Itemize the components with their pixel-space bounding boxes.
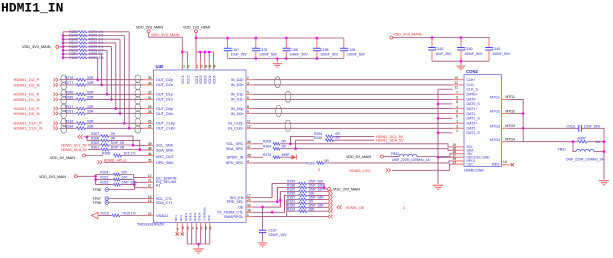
pin stub CON2 [453,79,465,81]
wire route v3 [280,192,287,208]
junction pull-up bus [62,42,65,45]
pin stub GND3 [195,222,197,229]
wire R325 to label [334,139,375,141]
svg-text:11: 11 [455,85,459,89]
wire VDD_3V3_MAIN to bus [59,46,63,48]
svg-text:22: 22 [148,212,152,216]
svg-text:26: 26 [148,120,152,124]
svg-text:R279: R279 [263,153,271,157]
resistor R289 DNP_62K [287,206,299,208]
wire route v5 [286,199,288,216]
junction top rail [285,37,288,40]
pin stub VDD1 [195,61,197,70]
svg-text:R301: R301 [91,145,99,149]
wire route v2 [277,188,287,202]
capacitor C413 10nF_2KV [579,125,582,132]
choke symbol pair 3 (outer) [61,104,67,112]
resistor R321 0R [287,202,299,204]
junction gnd tap 2 [460,60,463,63]
pin stub 38 [147,149,154,151]
resistor R314 62K [287,210,299,212]
wire bank row out [307,210,328,212]
off-page connector HDMI1_D1_P [54,93,58,97]
wire VDD5 drop [213,52,215,61]
off-page connector bank [328,201,333,205]
wire R216 to pin 22 [120,215,147,217]
svg-text:HPD_SRC: HPD_SRC [226,161,244,165]
svg-text:0R: 0R [282,140,287,144]
pin stub MTG4 [502,141,509,143]
svg-text:SDA_SNK: SDA_SNK [156,148,174,152]
off-page connector bank [328,194,333,198]
capacitor C158 100nF_50V [316,38,318,48]
wire FB32 to CON2 +5V [417,154,452,157]
junction rail [431,36,434,39]
svg-text:2: 2 [247,76,249,80]
svg-text:GND1: GND1 [184,212,188,221]
off-page connector HDMI1_D2_N [54,83,58,87]
wire SCL net to CON2 [280,144,452,147]
junction pull-up on line 1 [96,78,99,81]
svg-text:MTG4: MTG4 [506,138,516,142]
junction shield bus [437,117,440,120]
wire pull-up drop to line 7 [123,36,125,124]
junction pull-up bus [62,49,65,52]
svg-text:DAT1-: DAT1- [467,112,478,116]
wire R279 out [280,156,292,158]
svg-text:7: 7 [456,91,458,95]
svg-text:MTG1: MTG1 [506,95,516,99]
svg-text:35: 35 [148,76,152,80]
svg-text:SCL_SNK: SCL_SNK [156,144,174,148]
svg-text:10: 10 [454,76,458,80]
svg-text:46: 46 [247,140,251,144]
svg-text:VDD_3V3_MAIN: VDD_3V3_MAIN [39,175,66,179]
choke symbol pair 4 (right) [285,120,291,131]
pin stub GND5 [205,222,207,229]
junction route d [271,211,274,214]
wire pull-up drop to line 6 [119,39,121,113]
wire R286 to U40 [85,93,143,95]
pin stub 22 [147,215,154,217]
svg-text:MTG4: MTG4 [490,138,500,142]
wire 3V3 rail [393,37,490,39]
junction A1 tap [133,183,136,186]
svg-text:VDD_3V3_MAIN: VDD_3V3_MAIN [151,33,180,37]
svg-text:R325: R325 [314,136,322,140]
wire GND2 down [191,229,193,244]
wire R318 to U40 [85,122,143,124]
wire cap bank 2 bottom rail [432,60,489,62]
wire MTG bus [508,99,523,141]
junction MTG4 branch [572,140,575,143]
svg-text:100nF_50V: 100nF_50V [347,53,366,57]
pin stub RES [502,164,511,166]
junction SCL_SNK [132,144,135,147]
pin stub GND4 [200,222,202,229]
resistor R290 DNP_62K [287,183,299,185]
pin stub 33 [147,161,154,163]
off-page connector bank [328,190,333,194]
svg-text:NC1: NC1 [174,215,178,221]
pin stub 20 [246,201,253,203]
svg-text:2: 2 [456,129,458,133]
svg-text:HDMI1_SCL_5V: HDMI1_SCL_5V [61,143,88,147]
svg-text:C162: C162 [435,47,443,51]
wire C167 to gnd [262,232,264,241]
pin stub 16 [147,198,154,200]
wire TMDS line 3 to CON2 [253,93,453,95]
junction 62K bus b [94,178,97,181]
svg-text:100nF_50V: 100nF_50V [320,53,339,57]
wire chevron bus [86,136,88,141]
svg-text:GND4: GND4 [198,212,202,221]
wire cap bank bottom rail [228,58,344,60]
svg-text:DAT0-: DAT0- [467,98,478,102]
pin stub 42 [246,206,253,208]
resistor R188 DNP_62K [287,187,299,189]
svg-text:0R: 0R [325,159,330,163]
wire FB31 branch [573,142,576,152]
svg-text:28: 28 [148,110,152,114]
junction pull-up bus [62,34,65,37]
junction 3V3 tie [323,186,326,189]
off-page connector SCL/SDA 5V [78,135,83,139]
off-page connector CEC [386,168,391,172]
junction 62K bus a [94,175,97,178]
wire route v1 [272,184,287,198]
svg-text:14: 14 [195,64,199,68]
junction bottom rail [285,57,288,60]
ground (shield) [433,185,443,191]
junction route b [276,201,279,204]
pin stub VCC1 [181,61,183,70]
wire R300 row [88,144,101,146]
wire R250 row [63,31,78,33]
wire HPD to CON2 HPLG [324,161,452,163]
wire GND3 down [195,229,197,244]
svg-text:R318: R318 [65,120,74,124]
wire MTG3 to C413 [523,127,579,129]
svg-text:9: 9 [247,110,249,114]
wire VDD_1V2 rail [196,33,344,38]
pin stub MTG1 [502,98,509,100]
pin stub GND1 [186,222,188,229]
svg-text:33: 33 [148,159,152,163]
pin stub IN line 3 [246,93,253,95]
svg-text:C167: C167 [268,228,276,232]
svg-text:GND3: GND3 [193,212,197,221]
wire R307 row [87,135,101,137]
pin stub OUT line 7 [144,122,154,124]
wire TP96 [109,185,135,190]
svg-text:HDMI1_HPLG: HDMI1_HPLG [104,158,127,162]
wire SDA net to CON2 [280,149,452,151]
svg-text:MTG1: MTG1 [490,96,500,100]
choke symbol pair 4 (outer) [61,118,67,126]
pin stub IN line 2 [246,84,253,86]
svg-text:C156: C156 [290,48,298,52]
wire pin 20 route [253,188,277,202]
off-page connector HDMI1_D0_P [54,107,58,111]
wire ground stub [276,59,278,63]
wire HDMI1_CLK_N to resistor [60,127,77,129]
wire pin 42 route [253,192,280,208]
wire R246 row [63,38,78,40]
svg-text:32: 32 [148,91,152,95]
svg-text:100nF_50V: 100nF_50V [492,52,511,56]
svg-text:DNP_220R_100MHz_2A: DNP_220R_100MHz_2A [566,158,604,162]
wire shield pin [438,103,453,105]
pin stub IN line 7 [246,122,253,124]
wire R285 to U40 [85,98,143,100]
off-page connector bank [328,198,333,202]
junction VDD bus [199,51,202,54]
svg-text:MTG2: MTG2 [490,110,500,114]
pin stub IN line 4 [246,98,253,100]
pin stub CON2 [453,84,465,86]
svg-text:DAT1_S: DAT1_S [467,117,481,121]
wire VDD bus [196,38,214,52]
svg-text:62K: 62K [122,176,129,180]
wire GND5 down [205,229,207,244]
resistor R324 62K [96,174,114,176]
svg-text:0R: 0R [282,145,287,149]
svg-text:DAT1+: DAT1+ [467,107,478,111]
choke symbol pair 2 (outer) [61,89,67,97]
pin stub CON2 [453,93,465,95]
wire VDD2 drop [199,52,201,61]
wire R248 row [63,35,78,37]
junction bottom rail [255,57,258,60]
wire SDA_SNK merge [109,141,140,150]
pin stub SCL_SRC [246,143,253,145]
wire HDMI1_D2_N to resistor [60,84,77,86]
svg-text:OUT_D2n: OUT_D2n [156,83,173,87]
wire gnd bus [187,243,210,245]
pin stub GND2 [191,222,193,229]
svg-text:23: 23 [199,64,203,68]
wire TMDS line 4 to CON2 [253,98,453,100]
wire SCL_SNK merge [109,136,133,145]
wire gnd stub [198,244,200,248]
svg-text:RES: RES [492,163,500,167]
pin stub OUT line 3 [144,93,154,95]
junction pull-up on line 3 [106,93,109,96]
off-page connector bank [328,209,333,213]
svg-text:C157: C157 [231,48,239,52]
svg-text:VDD5: VDD5 [212,75,216,84]
svg-text:DNP_0R: DNP_0R [111,141,125,145]
pin stub NC2 [181,222,183,232]
junction pull-up on line 4 [110,98,113,101]
svg-text:21: 21 [148,179,152,183]
pin stub 15 [147,202,154,204]
junction MTG2 [522,112,525,115]
wire R277 to U40 [85,84,143,86]
wire MTG4 row [523,141,577,143]
junction gnd rail FB31 [603,150,606,153]
svg-text:3: 3 [318,168,320,172]
svg-text:R300: R300 [91,141,99,145]
junction SDA branch [294,147,297,150]
op-amp U40 box (TMDS181 redriver) [154,70,247,222]
junction gnd bus [197,243,200,246]
wire to R279 [253,156,263,158]
svg-text:62K: 62K [122,170,129,174]
wire SDA branch up [296,140,314,149]
ground (U40) [193,248,203,254]
svg-text:R305: R305 [263,140,271,144]
svg-text:31: 31 [148,96,152,100]
wire R397 to gnd rail [587,141,604,143]
wire R326 to label [334,135,375,137]
svg-text:VCC1: VCC1 [181,75,185,84]
svg-text:DAT0_S: DAT0_S [467,102,481,106]
resistor R322 62K [96,179,114,181]
svg-text:MTG3: MTG3 [490,124,500,128]
wire C167 feed [262,207,264,230]
svg-text:HDMI1_SDA_5V: HDMI1_SDA_5V [61,148,88,152]
svg-text:IN_D0n: IN_D0n [231,112,244,116]
svg-text:R314: R314 [287,207,295,211]
svg-text:HDMI1_D0_N: HDMI1_D0_N [14,111,40,116]
svg-text:VDD_3V3_MAIN: VDD_3V3_MAIN [136,25,163,29]
svg-text:HDMI1_SDA_5V: HDMI1_SDA_5V [376,139,404,143]
svg-text:DAT2+: DAT2+ [467,122,478,126]
junction gnd rail MTG4 [603,140,606,143]
svg-text:8: 8 [456,100,458,104]
pin stub IN line 8 [246,127,253,129]
pin stub OUT line 4 [144,98,154,100]
wire HDMI1_D0_P to resistor [60,108,77,110]
no-connect NC1 [176,232,179,235]
junction pull-up bus [62,56,65,59]
resistor R320 DNP_62K [287,191,299,193]
wire to pin 39 [133,144,147,146]
svg-text:29: 29 [148,105,152,109]
svg-text:14: 14 [503,160,507,164]
resistor R287 DNP_62K [287,198,299,200]
wire 62K bus [95,175,97,185]
no-connect NC2 [181,232,184,235]
svg-text:R304: R304 [263,145,271,149]
svg-text:VDD_5V_MAIN: VDD_5V_MAIN [50,156,75,160]
svg-text:0R: 0R [111,137,116,141]
svg-text:R308: R308 [91,137,99,141]
svg-text:10: 10 [148,174,152,178]
off-page connector HDMI1_D0_N [54,112,58,116]
svg-text:46: 46 [213,64,217,68]
pin stub NC1 [176,222,178,232]
wire shield pin [438,117,453,119]
junction SCL branch [289,143,292,146]
pin stub OUT line 8 [144,127,154,129]
svg-text:HDMI1_OE: HDMI1_OE [346,206,365,210]
svg-text:SDA_SRC: SDA_SRC [226,147,244,151]
wire R254 row [63,53,78,55]
svg-text:VCC2: VCC2 [186,75,190,84]
junction bottom rail [316,57,319,60]
choke symbol pair 4 (left) [135,118,141,126]
svg-text:MTG3: MTG3 [506,124,516,128]
wire to R309 [253,162,307,164]
svg-text:3: 3 [247,81,249,85]
wire VDD4 drop [208,52,210,61]
off-page connector SPDIF [292,155,297,160]
svg-text:VSADJ: VSADJ [156,214,168,218]
svg-text:C159: C159 [347,48,355,52]
wire DDC/CEC GND to bus [438,156,452,158]
svg-text:OUT_D2p: OUT_D2p [156,78,173,82]
wire HDMI1_D1_P to resistor [60,93,77,95]
svg-text:MTG2: MTG2 [506,109,516,113]
choke symbol pair 1 (right) [275,77,281,88]
junction top rail [255,37,258,40]
junction pull-up on line 2 [100,84,103,87]
svg-text:CEC: CEC [467,162,475,166]
wire TMDS line 8 to CON2 [253,127,453,129]
svg-text:6: 6 [247,96,249,100]
wire shield pin [438,88,453,90]
svg-text:VDD_5V_MAIN: VDD_5V_MAIN [346,155,371,159]
svg-text:R322: R322 [100,176,108,180]
capacitor C167 220nF_16V [259,230,267,232]
svg-text:CON2: CON2 [466,69,479,74]
choke symbol pair 3 (left) [135,104,141,112]
svg-text:VDD3: VDD3 [204,75,208,84]
capacitor C156 100nF_50V [285,38,287,48]
capacitor C159 100nF_50V [343,38,345,48]
pin stub HPD_SRC [246,162,253,164]
off-page connector HDMI1_CLK_N [54,127,58,131]
svg-text:0R: 0R [111,132,116,136]
wire shield bus [437,89,439,184]
wire GND4 down [200,229,202,244]
svg-text:8: 8 [247,105,249,109]
choke symbol pair 2 (right) [285,91,291,102]
svg-text:VDD2: VDD2 [199,75,203,84]
choke symbol pair 1 (left) [135,75,141,83]
svg-text:3: 3 [403,206,405,210]
svg-text:100nF_50V: 100nF_50V [259,53,278,57]
capacitor C157 10uF_25V [227,38,229,48]
pin stub VDD5 [213,61,215,70]
off-page connector HDMI1_D2_P [54,78,58,82]
junction shield bus [437,156,440,159]
junction pull-up on line 5 [115,107,118,110]
svg-text:9: 9 [456,96,458,100]
wire TMDS line 2 to CON2 [253,84,453,86]
svg-text:13: 13 [181,64,185,68]
resistor R323 DNP_62K [96,184,114,186]
svg-text:TP96: TP96 [93,188,101,192]
off-page connector HPD [98,160,103,164]
choke symbol pair 1 (outer) [61,75,67,83]
wire GND6 down [209,229,211,244]
wire pull-up drop to line 1 [97,58,99,80]
svg-text:A1: A1 [156,183,161,187]
svg-text:PAD: PAD [207,214,211,221]
svg-text:OUT_CLKn: OUT_CLKn [156,127,175,131]
pin stub 44 [147,155,154,157]
pin stub IN line 5 [246,108,253,110]
svg-text:R286: R286 [65,91,74,95]
svg-text:IN_D1p: IN_D1p [231,93,244,97]
svg-text:20: 20 [247,198,251,202]
wire bank row out [307,191,328,193]
power terminal [390,36,393,39]
